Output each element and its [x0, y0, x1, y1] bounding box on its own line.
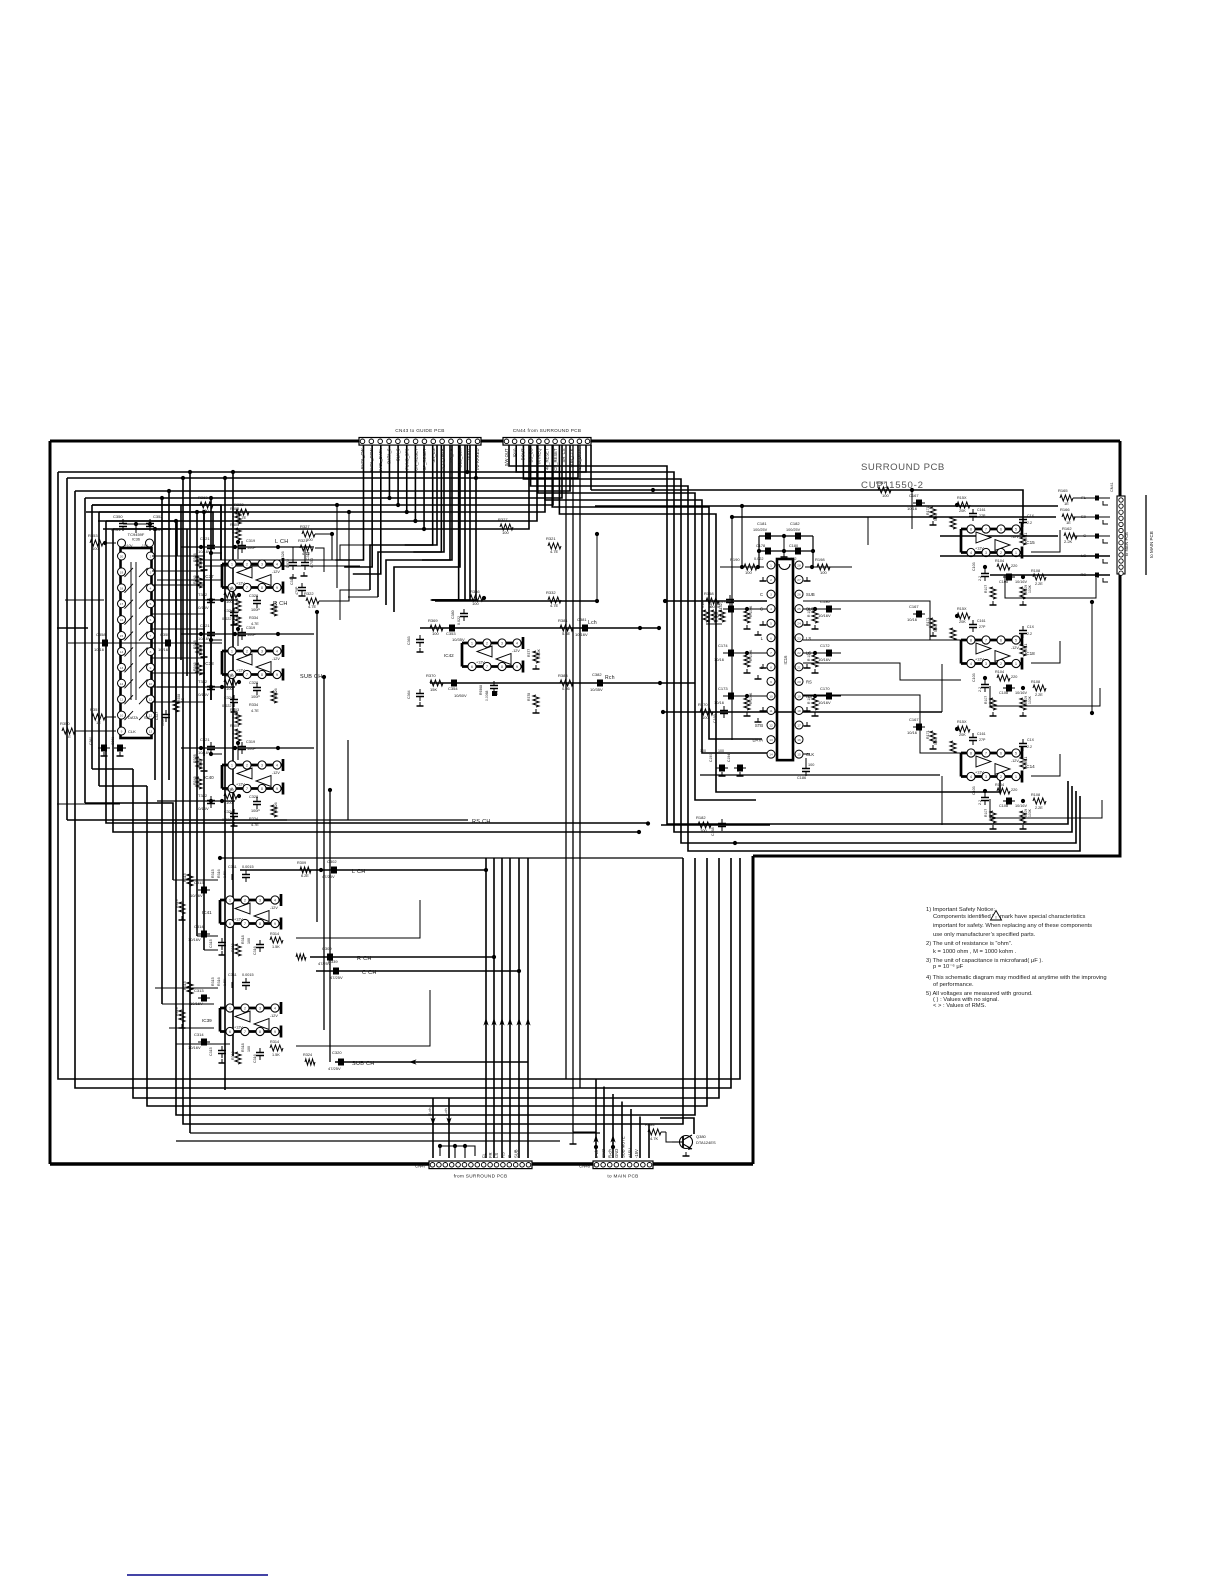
svg-text:C: C: [760, 592, 763, 597]
svg-text:C167: C167: [909, 717, 919, 722]
svg-text:R162: R162: [1062, 526, 1072, 531]
svg-text:C324: C324: [224, 810, 233, 814]
svg-text:R108: R108: [1031, 793, 1040, 797]
svg-text:9: 9: [276, 787, 278, 791]
svg-text:0.022: 0.022: [457, 616, 461, 625]
svg-text:9: 9: [274, 1030, 276, 1034]
svg-text:4.7E: 4.7E: [232, 715, 240, 719]
svg-text:C339: C339: [328, 959, 338, 964]
svg-text:100: 100: [472, 601, 479, 606]
svg-text:C161: C161: [977, 732, 986, 736]
svg-text:GND: GND: [614, 1149, 619, 1158]
svg-text:10/16V: 10/16V: [196, 605, 209, 610]
svg-text:to MAIN PCB: to MAIN PCB: [1149, 531, 1154, 558]
svg-text:C108: C108: [999, 580, 1008, 584]
svg-text:IC40: IC40: [204, 775, 214, 780]
svg-text:100P: 100P: [251, 809, 260, 813]
svg-text:20K: 20K: [959, 620, 966, 624]
svg-text:CN44 from SURROUND PCB: CN44 from SURROUND PCB: [513, 428, 582, 433]
svg-text:C108: C108: [999, 691, 1008, 695]
svg-text:4: 4: [970, 551, 972, 555]
svg-text:R378: R378: [527, 693, 531, 701]
svg-text:100: 100: [882, 493, 889, 498]
svg-text:10/35V: 10/35V: [590, 687, 603, 692]
svg-text:L-ch: L-ch: [443, 1108, 448, 1116]
svg-text:C1X: C1X: [1027, 625, 1035, 629]
svg-text:C319: C319: [246, 740, 255, 744]
svg-text:100: 100: [700, 749, 706, 753]
svg-text:3: 3: [501, 642, 503, 646]
svg-text:1: 1: [231, 563, 233, 567]
svg-text:4.7E: 4.7E: [550, 603, 559, 608]
svg-text:27P: 27P: [979, 738, 986, 742]
svg-text:220: 220: [1011, 564, 1017, 568]
svg-text:6: 6: [1000, 752, 1002, 756]
svg-text:RS: RS: [501, 1152, 506, 1158]
svg-text:DOUT: DOUT: [466, 448, 471, 460]
svg-text:10/16V: 10/16V: [1015, 691, 1028, 695]
svg-text:6: 6: [1000, 528, 1002, 532]
svg-text:R318: R318: [241, 1043, 245, 1052]
svg-text:R326: R326: [274, 802, 278, 811]
svg-text:JP10: JP10: [512, 448, 517, 458]
svg-text:10/16: 10/16: [907, 617, 918, 622]
svg-text:-12V: -12V: [270, 906, 278, 910]
svg-text:7: 7: [246, 586, 248, 590]
svg-text:6: 6: [229, 922, 231, 926]
svg-text:8: 8: [970, 528, 972, 532]
svg-text:C103: C103: [972, 562, 976, 571]
svg-text:C180: C180: [789, 544, 798, 548]
svg-text:C1X: C1X: [1027, 738, 1035, 742]
svg-text:0.56: 0.56: [562, 686, 571, 691]
svg-text:1.5K: 1.5K: [223, 978, 227, 986]
svg-text:R305: R305: [230, 724, 239, 728]
svg-text:R313: R313: [231, 1051, 235, 1060]
svg-text:0.0068: 0.0068: [485, 691, 489, 701]
svg-text:1) Important Safety Notice:: 1) Important Safety Notice:: [926, 907, 995, 913]
svg-text:R314: R314: [270, 1040, 279, 1044]
svg-text:0.022: 0.022: [153, 527, 164, 532]
svg-text:C: C: [507, 1155, 512, 1158]
svg-text:12: 12: [769, 724, 773, 728]
svg-text:9: 9: [276, 673, 278, 677]
svg-text:16: 16: [120, 618, 124, 622]
svg-text:R328: R328: [193, 754, 197, 763]
svg-text:p = 10⁻⁶ μF: p = 10⁻⁶ μF: [933, 963, 964, 970]
svg-text:15: 15: [797, 753, 801, 757]
svg-text:9: 9: [274, 922, 276, 926]
svg-text:-10V: -10V: [141, 544, 149, 548]
svg-text:C309: C309: [322, 946, 332, 951]
svg-text:4: 4: [274, 899, 276, 903]
svg-text:R CH: R CH: [357, 956, 372, 962]
svg-text:8: 8: [970, 752, 972, 756]
svg-text:DS_CA: DS_CA: [449, 448, 454, 462]
svg-text:R313: R313: [231, 943, 235, 952]
svg-text:DTA124ES: DTA124ES: [696, 1140, 716, 1145]
svg-text:SUB CH: SUB CH: [352, 1061, 375, 1067]
svg-text:4.7E: 4.7E: [251, 823, 259, 827]
svg-text:R166: R166: [1060, 507, 1070, 512]
svg-text:C328: C328: [249, 594, 258, 598]
svg-text:C311: C311: [228, 865, 237, 869]
svg-text:CN_RESET: CN_RESET: [413, 448, 418, 471]
svg-text:1: 1: [1015, 775, 1017, 779]
svg-text:100K: 100K: [1028, 695, 1032, 704]
svg-text:2.2: 2.2: [978, 800, 982, 805]
svg-text:of performance.: of performance.: [933, 982, 974, 988]
svg-text:-12V: -12V: [272, 570, 280, 574]
svg-text:R 100: R 100: [807, 695, 811, 704]
svg-text:R9368: R9368: [479, 685, 483, 695]
svg-text:21: 21: [797, 665, 801, 669]
svg-text:2: 2: [246, 764, 248, 768]
svg-text:R369: R369: [428, 618, 438, 623]
svg-text:1: 1: [229, 1007, 231, 1011]
svg-text:8: 8: [150, 650, 152, 654]
svg-text:2.2: 2.2: [978, 576, 982, 581]
svg-text:8: 8: [970, 639, 972, 643]
svg-text:+12V: +12V: [236, 582, 245, 586]
svg-text:0.022: 0.022: [222, 617, 232, 621]
svg-text:R309: R309: [297, 861, 306, 865]
svg-text:FL: FL: [481, 1152, 486, 1158]
svg-text:CN48: CN48: [579, 1164, 591, 1169]
svg-text:R315: R315: [183, 873, 187, 882]
svg-text:4: 4: [970, 662, 972, 666]
svg-text:R353: R353: [88, 533, 98, 538]
svg-text:R315: R315: [211, 977, 215, 986]
svg-text:C103: C103: [972, 786, 976, 795]
svg-text:25: 25: [797, 607, 801, 611]
svg-text:20: 20: [120, 555, 124, 559]
svg-text:R314: R314: [270, 932, 279, 936]
svg-text:DATA_5: DATA_5: [387, 448, 392, 464]
svg-text:C320: C320: [332, 1050, 342, 1055]
svg-text:10/16V: 10/16V: [196, 692, 209, 697]
svg-text:18: 18: [797, 709, 801, 713]
svg-text:10/35V: 10/35V: [452, 637, 465, 642]
svg-text:4: 4: [770, 607, 772, 611]
svg-text:R 100: R 100: [807, 608, 811, 617]
svg-text:3: 3: [150, 570, 152, 574]
svg-text:CN41: CN41: [1110, 482, 1114, 492]
svg-text:2.2: 2.2: [1027, 632, 1032, 636]
svg-text:7: 7: [246, 787, 248, 791]
svg-text:C380: C380: [451, 610, 455, 619]
svg-text:-12V: -12V: [272, 771, 280, 775]
svg-text:R319: R319: [175, 899, 179, 908]
svg-text:E0: E0: [1081, 514, 1087, 519]
svg-text:100/25V: 100/25V: [753, 528, 768, 532]
svg-text:C169: C169: [713, 714, 717, 723]
svg-text:SUB MUTE: SUB MUTE: [621, 1136, 626, 1158]
svg-text:R323: R323: [234, 502, 244, 507]
svg-text:1.5K: 1.5K: [223, 870, 227, 878]
svg-text:6.2E: 6.2E: [301, 874, 309, 878]
svg-text:-15V: -15V: [634, 1149, 639, 1158]
svg-text:2: 2: [1000, 775, 1002, 779]
svg-text:R343: R343: [193, 575, 197, 584]
svg-text:4: 4: [516, 642, 518, 646]
svg-text:C173: C173: [718, 686, 728, 691]
svg-text:15K: 15K: [430, 687, 437, 692]
svg-text:R108: R108: [1031, 569, 1040, 573]
svg-text:-12V: -12V: [270, 1014, 278, 1018]
svg-text:to MAIN PCB: to MAIN PCB: [607, 1174, 638, 1179]
svg-text:SH: SH: [144, 715, 150, 720]
svg-text:6: 6: [150, 618, 152, 622]
svg-text:7: 7: [486, 665, 488, 669]
svg-text:R15X: R15X: [957, 496, 967, 500]
svg-text:10/16V: 10/16V: [190, 893, 203, 898]
svg-text:C161: C161: [977, 508, 986, 512]
svg-text:0.022: 0.022: [222, 818, 232, 822]
svg-text:R381: R381: [558, 618, 568, 623]
svg-text:C358: C358: [96, 632, 106, 637]
svg-text:R CH: R CH: [273, 601, 288, 607]
svg-text:23: 23: [797, 636, 801, 640]
svg-text:2: 2: [246, 650, 248, 654]
svg-text:-12V: -12V: [1011, 759, 1019, 763]
svg-text:7: 7: [770, 651, 772, 655]
svg-text:10/16V: 10/16V: [1015, 580, 1028, 584]
svg-text:10/16V: 10/16V: [196, 806, 209, 811]
svg-text:SR_CS: SR_CS: [431, 448, 436, 462]
svg-text:6: 6: [1000, 639, 1002, 643]
svg-text:2: 2: [244, 899, 246, 903]
svg-text:C382: C382: [592, 672, 602, 677]
svg-text:L CH: L CH: [352, 869, 366, 875]
svg-text:4.7K: 4.7K: [232, 617, 240, 621]
svg-text:R327: R327: [300, 524, 310, 529]
svg-text:SUB_CLK: SUB_CLK: [569, 448, 574, 467]
svg-text:IC41: IC41: [202, 910, 212, 915]
svg-text:R327: R327: [498, 517, 508, 522]
svg-text:3: 3: [261, 650, 263, 654]
svg-text:0.0015: 0.0015: [242, 973, 254, 977]
svg-text:9: 9: [121, 730, 123, 734]
svg-text:1: 1: [231, 650, 233, 654]
svg-text:4.7E: 4.7E: [232, 601, 240, 605]
svg-text:8: 8: [259, 922, 261, 926]
svg-text:R171: R171: [926, 730, 930, 739]
svg-text:10/16: 10/16: [714, 700, 725, 705]
svg-text:10/16V: 10/16V: [818, 613, 831, 618]
svg-text:-12V: -12V: [1011, 535, 1019, 539]
svg-text:GND: GND: [601, 1149, 606, 1158]
svg-text:5.6E: 5.6E: [562, 631, 571, 636]
svg-text:5: 5: [1015, 528, 1017, 532]
svg-text:100: 100: [202, 508, 209, 513]
svg-text:470P: 470P: [295, 586, 299, 595]
svg-text:56K: 56K: [934, 514, 938, 521]
svg-text:3: 3: [985, 775, 987, 779]
svg-text:R170: R170: [698, 702, 708, 707]
svg-text:R316: R316: [217, 869, 221, 878]
svg-text:C319: C319: [246, 539, 255, 543]
svg-text:13: 13: [769, 738, 773, 742]
svg-text:100/25V: 100/25V: [786, 528, 801, 532]
svg-text:3: 3: [770, 593, 772, 597]
svg-text:1.5K: 1.5K: [272, 1053, 280, 1057]
svg-text:R324: R324: [303, 1053, 312, 1057]
svg-text:C108: C108: [999, 804, 1008, 808]
svg-text:R11: R11: [1024, 757, 1028, 763]
svg-text:C328: C328: [249, 681, 258, 685]
svg-text:CUP11550-2: CUP11550-2: [861, 480, 924, 491]
svg-text:R107: R107: [984, 696, 988, 704]
svg-text:3: 3: [985, 662, 987, 666]
svg-text:CLK: CLK: [806, 752, 814, 757]
svg-text:R370: R370: [426, 673, 436, 678]
svg-text:-12V: -12V: [1011, 646, 1019, 650]
svg-text:4: 4: [276, 650, 278, 654]
svg-text:100: 100: [702, 715, 709, 720]
svg-text:EVOL_DATA: EVOL_DATA: [378, 448, 383, 472]
svg-text:1: 1: [231, 764, 233, 768]
svg-text:27: 27: [797, 578, 801, 582]
svg-text:2) The unit of resistance is “: 2) The unit of resistance is “ohm”.: [926, 941, 1013, 947]
svg-text:7: 7: [150, 634, 152, 638]
svg-text:C194: C194: [727, 754, 731, 762]
svg-text:+12V: +12V: [236, 669, 245, 673]
svg-text:47/25V: 47/25V: [328, 1066, 341, 1071]
svg-text:R107: R107: [984, 809, 988, 817]
svg-text:10/16: 10/16: [158, 647, 169, 652]
svg-text:R330: R330: [224, 673, 234, 678]
svg-text:-12V: -12V: [272, 657, 280, 661]
svg-text:2: 2: [244, 1007, 246, 1011]
svg-text:24: 24: [797, 622, 801, 626]
svg-text:T322: T322: [198, 793, 208, 798]
svg-text:10/16V: 10/16V: [190, 1001, 203, 1006]
svg-text:11: 11: [120, 698, 123, 702]
svg-text:19: 19: [120, 570, 124, 574]
svg-text:100P: 100P: [251, 608, 260, 612]
svg-text:important for safety. When re: important for safety. When replacing any…: [933, 923, 1092, 929]
svg-text:100P: 100P: [247, 747, 256, 751]
svg-text:1E: 1E: [66, 734, 71, 739]
svg-text:C352: C352: [153, 514, 163, 519]
svg-text:220: 220: [1011, 675, 1017, 679]
svg-text:12: 12: [120, 682, 124, 686]
svg-text:+12V: +12V: [234, 918, 243, 922]
svg-text:SP_RESET: SP_RESET: [422, 448, 427, 470]
svg-text:22: 22: [797, 651, 801, 655]
svg-text:47/25V: 47/25V: [322, 874, 335, 879]
svg-text:R332: R332: [546, 590, 556, 595]
svg-text:R377: R377: [527, 649, 531, 657]
svg-text:4.7K: 4.7K: [232, 530, 240, 534]
svg-text:C364: C364: [407, 690, 411, 699]
svg-text:47/25V: 47/25V: [330, 975, 343, 980]
svg-text:C354: C354: [448, 686, 458, 691]
svg-text:2.2: 2.2: [978, 687, 982, 692]
svg-text:R 100K: R 100K: [749, 649, 753, 661]
svg-text:100: 100: [718, 749, 724, 753]
svg-text:26: 26: [797, 593, 801, 597]
svg-text:C316: C316: [290, 576, 294, 585]
svg-text:R11: R11: [1024, 644, 1028, 650]
svg-text:C350: C350: [113, 514, 123, 519]
svg-text:R330: R330: [224, 586, 234, 591]
svg-text:R 100K: R 100K: [749, 605, 753, 617]
svg-text:R386: R386: [470, 589, 480, 594]
svg-text:R318: R318: [241, 935, 245, 944]
svg-text:10/16V: 10/16V: [818, 657, 831, 662]
svg-text:0.022: 0.022: [754, 557, 764, 561]
svg-text:4: 4: [150, 586, 152, 590]
svg-text:STB: STB: [755, 723, 763, 728]
svg-text:C361: C361: [111, 737, 115, 745]
svg-text:C181: C181: [757, 521, 767, 526]
svg-text:100: 100: [808, 763, 814, 767]
svg-text:IC38: IC38: [204, 661, 214, 666]
svg-text:19: 19: [797, 694, 801, 698]
svg-text:100K: 100K: [1028, 584, 1032, 593]
svg-text:18: 18: [120, 586, 124, 590]
svg-text:C315: C315: [209, 1047, 213, 1056]
svg-text:10/50V: 10/50V: [454, 693, 467, 698]
svg-text:R351: R351: [90, 707, 100, 712]
svg-text:FR: FR: [488, 1152, 493, 1158]
svg-text:1: 1: [471, 642, 473, 646]
svg-text:8: 8: [261, 787, 263, 791]
svg-text:R330: R330: [224, 787, 234, 792]
svg-text:16: 16: [797, 738, 801, 742]
svg-text:RS: RS: [806, 679, 812, 684]
svg-text:DOUT: DOUT: [520, 448, 525, 460]
svg-text:9: 9: [276, 586, 278, 590]
svg-text:C319: C319: [246, 626, 255, 630]
svg-text:R184: R184: [645, 1122, 655, 1127]
svg-text:R350: R350: [60, 721, 70, 726]
svg-text:10/16: 10/16: [94, 647, 105, 652]
svg-text:C324: C324: [224, 696, 233, 700]
svg-text:C178: C178: [756, 544, 765, 548]
svg-text:R 100K: R 100K: [749, 692, 753, 704]
svg-text:3: 3: [259, 899, 261, 903]
svg-text:R316: R316: [217, 977, 221, 986]
svg-text:5: 5: [1015, 639, 1017, 643]
svg-text:R326: R326: [274, 688, 278, 697]
svg-text:R334: R334: [249, 616, 258, 620]
svg-text:EVOL_CW: EVOL_CW: [360, 448, 365, 469]
svg-text:R334: R334: [249, 703, 258, 707]
svg-text:27P: 27P: [979, 514, 986, 518]
svg-text:100: 100: [226, 686, 233, 691]
svg-text:10/16V: 10/16V: [188, 937, 201, 942]
svg-text:14: 14: [769, 753, 773, 757]
svg-text:7: 7: [985, 528, 987, 532]
svg-text:C168: C168: [711, 827, 715, 836]
svg-text:FL: FL: [1081, 495, 1086, 500]
svg-text:C170: C170: [820, 686, 830, 691]
svg-text:1E: 1E: [96, 720, 101, 725]
svg-text:17: 17: [120, 602, 124, 606]
svg-text:+12V: +12V: [236, 783, 245, 787]
svg-text:C316: C316: [253, 1054, 257, 1063]
svg-text:5: 5: [150, 602, 152, 606]
svg-text:IC37: IC37: [204, 574, 214, 579]
svg-text:100K: 100K: [1028, 808, 1032, 817]
svg-text:100K: 100K: [199, 559, 203, 568]
svg-text:R-ch: R-ch: [607, 1148, 612, 1158]
svg-text:11: 11: [149, 698, 152, 702]
svg-text:L CH: L CH: [275, 539, 289, 545]
